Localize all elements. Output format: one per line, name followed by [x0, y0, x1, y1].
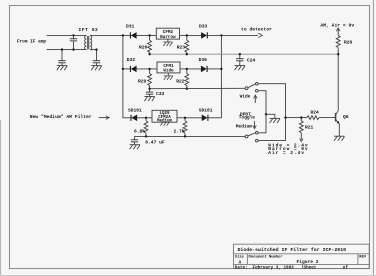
svg-text:Wide: Wide — [163, 69, 174, 74]
svg-text:0.47 uF: 0.47 uF — [145, 140, 165, 146]
svg-text:REV: REV — [359, 255, 367, 259]
svg-text:R20: R20 — [139, 45, 148, 51]
svg-text:Q6: Q6 — [343, 114, 349, 120]
svg-text:R24: R24 — [311, 110, 320, 116]
svg-text:R22: R22 — [176, 79, 185, 85]
svg-text:AM, Air = 9v: AM, Air = 9v — [320, 22, 354, 28]
svg-text:Document Number: Document Number — [249, 255, 283, 260]
svg-text:D33: D33 — [199, 24, 208, 30]
svg-text:From IF amp: From IF amp — [17, 40, 46, 45]
svg-text:Narrow: Narrow — [160, 35, 176, 40]
svg-text:C24: C24 — [247, 58, 256, 64]
svg-text:Date:: Date: — [235, 265, 248, 270]
svg-text:R26: R26 — [344, 40, 353, 46]
svg-text:SD101: SD101 — [199, 107, 213, 113]
svg-text:New "Medium" AM Filter: New "Medium" AM Filter — [30, 114, 92, 120]
svg-text:IFT 02: IFT 02 — [79, 27, 99, 33]
svg-text:Wide: Wide — [240, 94, 251, 100]
svg-text:Diode-switched IF Filter for I: Diode-switched IF Filter for ICF-2010 — [238, 247, 347, 253]
svg-text:R29: R29 — [138, 79, 147, 85]
svg-text:D32: D32 — [127, 57, 136, 63]
svg-text:SD101: SD101 — [128, 107, 142, 113]
svg-text:R21: R21 — [305, 124, 314, 130]
svg-text:D36: D36 — [199, 57, 208, 63]
svg-text:Size: Size — [235, 255, 245, 260]
svg-text:R23: R23 — [177, 45, 186, 51]
svg-text:D31: D31 — [126, 24, 135, 30]
svg-text:Figure 2: Figure 2 — [297, 259, 319, 265]
svg-text:C33: C33 — [156, 91, 165, 97]
svg-text:Air = 2.4v: Air = 2.4v — [268, 150, 305, 156]
svg-text:February 3, 1993: February 3, 1993 — [253, 265, 295, 270]
svg-text:Medium: Medium — [236, 123, 253, 129]
svg-text:Sheet: Sheet — [304, 265, 317, 270]
svg-text:of: of — [343, 265, 349, 270]
svg-text:Medium: Medium — [157, 119, 173, 124]
svg-text:6.8k: 6.8k — [134, 128, 145, 134]
svg-text:Toggle: Toggle — [239, 115, 256, 121]
svg-text:2.7k: 2.7k — [174, 128, 185, 134]
svg-text:to detector: to detector — [241, 27, 272, 33]
